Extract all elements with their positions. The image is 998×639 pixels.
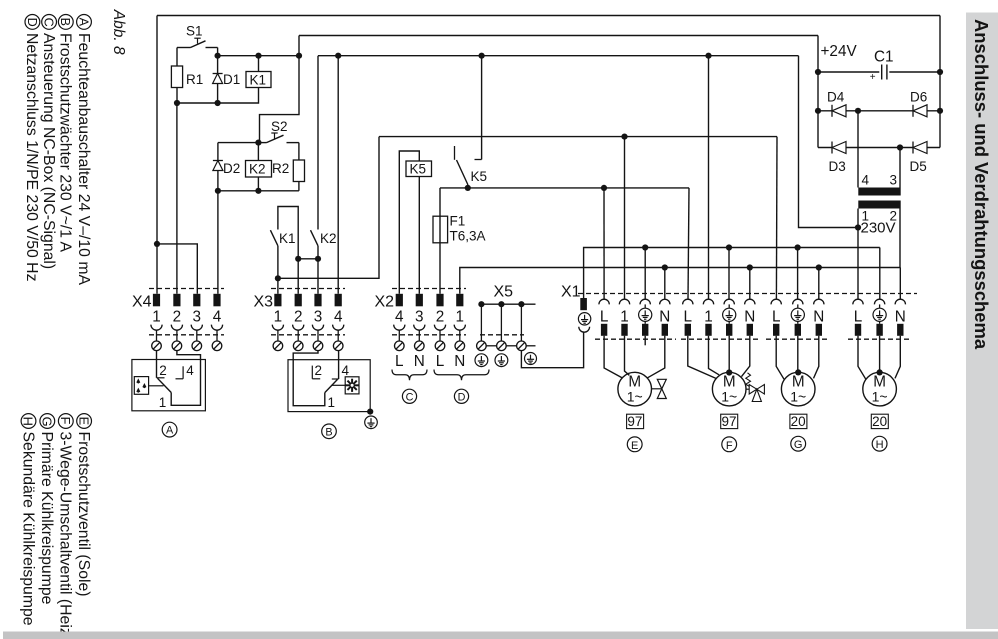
wire: bridge AC input from pin 4 — [857, 111, 859, 188]
code label 20 (G) — [790, 414, 807, 428]
svg-text:K2: K2 — [320, 231, 337, 246]
svg-text:1~: 1~ — [872, 389, 888, 405]
svg-text:F1: F1 — [450, 214, 466, 229]
earth connection of box B frame — [367, 409, 373, 415]
device box B (Frostschutzwaechter) — [288, 360, 370, 412]
svg-text:C1: C1 — [874, 49, 894, 66]
svg-text:R2: R2 — [272, 161, 289, 176]
svg-text:+: + — [870, 72, 876, 83]
svg-text:Abb. 8: Abb. 8 — [110, 9, 127, 55]
svg-text:E: E — [631, 440, 638, 452]
wire: S1 output bus to +24V left rail — [299, 35, 818, 37]
resistor R2 — [293, 160, 304, 182]
svg-text:3: 3 — [314, 309, 323, 326]
wire: jog from supply node down to S2 — [260, 56, 300, 143]
svg-text:1: 1 — [152, 309, 161, 326]
wire: L bus drop to X3:4 — [337, 56, 339, 294]
svg-text:230V: 230V — [861, 220, 896, 237]
svg-text:1~: 1~ — [627, 389, 643, 405]
X1 connector N — [814, 299, 824, 304]
svg-text:4: 4 — [334, 309, 343, 326]
resistor R1 — [171, 66, 182, 88]
brace D group (Netzanschluss) — [434, 370, 489, 381]
svg-text:G: G — [40, 417, 55, 427]
svg-text:D3: D3 — [829, 159, 846, 174]
motor/pump E (Frostschutzventil Sole) — [604, 336, 622, 378]
X1 connector N — [895, 299, 905, 304]
X3 terminal 2 — [295, 294, 302, 307]
frost/snowflake icon in B — [345, 377, 359, 394]
label D — [454, 389, 468, 403]
svg-text:1: 1 — [159, 395, 167, 410]
wire: X4:2 to common 1 of A — [171, 351, 200, 406]
X1 connector PE — [793, 299, 803, 304]
wire: bridge AC input from pin 3 — [899, 148, 901, 188]
diode D2 — [217, 143, 219, 191]
svg-text:X2: X2 — [375, 294, 395, 311]
X3 terminal 4 — [335, 294, 342, 307]
wire: PE bus from X1:1 to motor PE terminals — [584, 248, 880, 299]
valve symbol at motor E — [652, 388, 662, 390]
svg-text:Frostschutzventil (Sole): Frostschutzventil (Sole) — [75, 432, 92, 597]
code label 20 (H) — [871, 414, 888, 428]
svg-text:S1: S1 — [186, 24, 203, 39]
X2 terminal 1 — [456, 294, 463, 307]
svg-text:Anschluss- und Verdrahtungssch: Anschluss- und Verdrahtungsschema — [971, 19, 992, 350]
relay coil K5 — [399, 151, 419, 294]
svg-text:S2: S2 — [271, 119, 288, 134]
svg-text:N: N — [454, 353, 465, 370]
brace C group (Ansteuerung NC-Box) — [392, 370, 427, 381]
wire: L bus to transformer primary pin 1 — [799, 56, 859, 228]
svg-text:X5: X5 — [494, 284, 514, 301]
wire: X4:1 / X4:3 bridge — [154, 241, 160, 247]
X5 earth symbol 3 — [525, 353, 537, 365]
wire: N bus from X2:1 to motor N terminals — [460, 268, 901, 294]
X4 terminal 2 — [173, 294, 180, 307]
svg-text:D4: D4 — [827, 90, 845, 105]
X2 terminal 3 — [416, 294, 423, 307]
X1 connector PE — [874, 299, 884, 304]
wire: S2 node to D2 — [218, 142, 259, 144]
svg-text:R1: R1 — [186, 72, 203, 87]
X4 terminal 4 — [213, 294, 220, 307]
svg-text:D: D — [25, 18, 39, 27]
svg-text:Feuchteanbauschalter 24 V–/10: Feuchteanbauschalter 24 V–/10 mA — [75, 33, 92, 285]
svg-text:L: L — [854, 309, 863, 326]
svg-text:1~: 1~ — [721, 389, 737, 405]
svg-text:Sekundäre Kühlkreispumpe: Sekundäre Kühlkreispumpe — [19, 432, 36, 626]
contact 2 stub in B — [311, 366, 313, 379]
contact blade in A — [158, 378, 172, 392]
wire: rectifier left rail (+24V) — [817, 36, 819, 148]
svg-text:L: L — [436, 353, 445, 370]
svg-text:97: 97 — [627, 414, 642, 429]
X5 terminal — [480, 304, 482, 341]
contact 4 stub in A — [182, 366, 184, 379]
X1 terminal 1 (PE) — [580, 298, 587, 310]
svg-text:L: L — [600, 309, 609, 326]
bottom gray strip (next page edge) — [3, 632, 998, 639]
X4 terminal 3 — [193, 294, 200, 307]
relay contact K1 — [278, 207, 298, 259]
wire: K1/K2 contact link to X3:2 and X3:3 — [298, 258, 318, 260]
label H — [872, 436, 887, 451]
svg-text:Frostschutzwächter 230 V~/1 A: Frostschutzwächter 230 V~/1 A — [57, 33, 74, 253]
svg-text:4: 4 — [862, 173, 870, 188]
X1 lower dashed line — [595, 338, 676, 340]
svg-text:C: C — [42, 18, 56, 27]
legend item G (rotated): Primäre Kühlkreispumpe — [40, 414, 55, 429]
X5 earth symbol 2 — [495, 354, 508, 367]
svg-text:K1: K1 — [250, 73, 267, 88]
X2 terminal 4 — [396, 294, 403, 307]
svg-text:H: H — [21, 417, 36, 426]
svg-text:A: A — [166, 425, 174, 437]
motor/pump H (Sekundäre Kühlkreispumpe) — [858, 336, 866, 379]
X2 terminal 2 — [436, 294, 443, 307]
diode D3 — [818, 147, 940, 149]
switch S1 — [177, 47, 191, 49]
svg-text:F: F — [58, 417, 73, 425]
svg-text:97: 97 — [721, 414, 736, 429]
svg-text:4: 4 — [342, 363, 350, 378]
svg-text:E: E — [76, 417, 91, 426]
svg-text:B: B — [58, 18, 72, 26]
wire: X4:1 to contact 2 of A — [156, 351, 158, 378]
svg-text:3-Wege-Umschaltventil (Heizen/: 3-Wege-Umschaltventil (Heizen/Kühlen) — [57, 432, 74, 639]
wire: 230V L bus — [318, 55, 799, 57]
svg-text:1: 1 — [704, 309, 713, 326]
relay contact K2 — [317, 56, 319, 230]
fuse F1 T6,3A — [439, 188, 441, 294]
wire: X5 PE link to X1:1 — [521, 332, 583, 368]
wire: raw L to H:L — [857, 228, 859, 300]
legend item D (rotated): Netzanschluss 1/N/PE 230 V/50 Hz — [25, 15, 40, 30]
device box A (Feuchteanbauschalter) — [132, 360, 206, 411]
relay contact K5 — [481, 56, 483, 160]
X5 earth symbol 1 — [475, 354, 488, 367]
svg-text:K5: K5 — [410, 162, 427, 177]
wire: rectifier right rail — [939, 16, 941, 148]
transformer 230V (windings) — [858, 188, 900, 196]
svg-text:N: N — [744, 309, 755, 326]
diode D5 — [912, 142, 914, 154]
wire: transformer primary pin 2 to N bus — [899, 209, 901, 268]
svg-text:4: 4 — [395, 309, 404, 326]
node: X3:1 output to switched bus — [275, 275, 281, 281]
svg-text:H: H — [876, 439, 884, 451]
3-way valve symbol with spring at motor F — [746, 388, 757, 390]
svg-text:2: 2 — [159, 363, 167, 378]
X3 terminal 1 — [274, 294, 281, 307]
wire: X3:4 to contact 4 of B — [338, 351, 340, 379]
svg-text:1: 1 — [456, 309, 465, 326]
svg-text:D5: D5 — [910, 159, 927, 174]
svg-text:X1: X1 — [561, 284, 581, 301]
svg-text:1: 1 — [620, 309, 629, 326]
relay coil K2 — [246, 161, 272, 178]
wire: raw L to F:1 — [708, 56, 710, 300]
svg-text:N: N — [414, 353, 425, 370]
svg-text:3: 3 — [415, 309, 424, 326]
svg-text:1: 1 — [274, 309, 283, 326]
svg-text:D1: D1 — [223, 72, 240, 87]
wire: X3:3 to common 1 of B — [293, 351, 325, 406]
X1 connector L — [853, 299, 863, 304]
X1 connector 1 — [703, 299, 713, 304]
motor/pump F (3-Wege-Umschaltventil) — [688, 336, 717, 379]
legend item E (rotated): Frostschutzventil (Sole) — [77, 414, 92, 429]
X1 connector PE — [724, 299, 734, 304]
X4 terminal 1 — [153, 294, 160, 307]
label E — [627, 437, 642, 452]
svg-text:+24V: +24V — [821, 43, 858, 60]
svg-text:L: L — [772, 309, 781, 326]
X1 connector N — [745, 299, 755, 304]
svg-text:T6,3A: T6,3A — [450, 229, 486, 244]
switch S2 — [255, 140, 261, 146]
svg-text:D: D — [458, 391, 466, 403]
wire: S1 left lead down to R1 — [176, 48, 178, 67]
svg-text:20: 20 — [872, 414, 887, 429]
svg-text:A: A — [76, 18, 90, 27]
svg-text:2: 2 — [436, 309, 445, 326]
svg-text:3: 3 — [890, 173, 898, 188]
svg-text:3: 3 — [193, 309, 202, 326]
diode D6 — [912, 105, 914, 117]
label F — [722, 437, 737, 452]
label G — [791, 436, 806, 451]
wire: switched bus (K1/K2) to E:1 and G:L — [379, 136, 777, 138]
contact blade in B — [325, 379, 338, 392]
svg-text:1~: 1~ — [790, 389, 806, 405]
svg-text:X4: X4 — [132, 294, 152, 311]
svg-text:N: N — [813, 309, 824, 326]
wire: top supply bus (X4:1 net to rectifier right rail) — [157, 15, 940, 17]
svg-text:K5: K5 — [471, 169, 488, 184]
wire: node down to X4:2 — [176, 103, 178, 294]
legend item A (rotated): Feuchteanbauschalter 24 V–/10 mA — [77, 15, 92, 30]
legend item C (rotated): Ansteuerung NC-Box (NC-Signal) — [42, 15, 57, 30]
humidity sensor icon in A — [134, 377, 148, 395]
svg-text:Netzanschluss 1/N/PE 230 V/50: Netzanschluss 1/N/PE 230 V/50 Hz — [23, 33, 40, 282]
svg-text:2: 2 — [315, 363, 323, 378]
capacitor C1 — [818, 71, 879, 73]
code label 97 (E) — [627, 414, 644, 428]
X1 connector L — [771, 299, 781, 304]
svg-text:2: 2 — [173, 309, 182, 326]
legend item F (rotated): 3-Wege-Umschaltventil (Heizen/Kühlen) — [58, 414, 73, 429]
right sidebar: chapter tab "Anschluss- und Verdrahtungsschema" — [966, 13, 998, 630]
wire: transformer pin 1 lead — [857, 209, 859, 228]
svg-text:C: C — [406, 391, 414, 403]
X3 terminal 3 — [314, 294, 321, 307]
svg-text:D2: D2 — [223, 161, 240, 176]
wire: left border drop to X4:1 — [156, 16, 158, 294]
diode D1 — [217, 56, 219, 103]
node: D2/K2/R2 bottom node to X4:4 — [218, 190, 299, 192]
svg-text:X3: X3 — [254, 294, 274, 311]
svg-text:4: 4 — [213, 309, 222, 326]
label B — [322, 424, 337, 439]
svg-text:2: 2 — [294, 309, 303, 326]
diode D4 — [818, 110, 940, 112]
wire: K1 coil bottom to R1/D1 node — [177, 88, 259, 104]
X5 terminal — [500, 304, 502, 341]
svg-text:F: F — [726, 440, 733, 452]
svg-text:Primäre Kühlkreispumpe: Primäre Kühlkreispumpe — [38, 432, 55, 605]
legend item H (rotated): Sekundäre Kühlkreispumpe — [21, 414, 36, 429]
X5 terminal — [520, 304, 522, 341]
svg-text:Ansteuerung NC-Box (NC-Signal): Ansteuerung NC-Box (NC-Signal) — [40, 33, 57, 269]
X1 connector PE — [640, 299, 650, 304]
relay coil K1 — [246, 72, 271, 88]
svg-text:L: L — [395, 353, 404, 370]
label C — [402, 389, 416, 403]
legend item B (rotated): Frostschutzwächter 230 V~/1 A — [58, 15, 73, 30]
X1 connector 1 — [619, 299, 629, 304]
svg-text:G: G — [794, 439, 803, 451]
svg-text:N: N — [659, 309, 670, 326]
X1 connector L — [599, 299, 609, 304]
svg-text:K1: K1 — [279, 231, 296, 246]
node: S1/D1/K1 supply node line — [218, 55, 299, 57]
svg-text:1: 1 — [328, 395, 336, 410]
svg-text:20: 20 — [791, 414, 806, 429]
svg-text:N: N — [895, 309, 906, 326]
svg-text:D6: D6 — [910, 90, 927, 105]
svg-text:K2: K2 — [249, 162, 266, 177]
svg-text:B: B — [325, 426, 332, 438]
label A — [162, 422, 177, 437]
wire: K5-switched bus to F1, E:L and F:L — [440, 187, 689, 189]
motor/pump G (Primäre Kühlkreispumpe) — [776, 336, 784, 379]
svg-text:4: 4 — [186, 363, 194, 378]
code label 97 (F) — [721, 414, 738, 428]
X1 connector L — [683, 299, 693, 304]
svg-text:L: L — [684, 309, 693, 326]
X1 connector N — [660, 299, 670, 304]
